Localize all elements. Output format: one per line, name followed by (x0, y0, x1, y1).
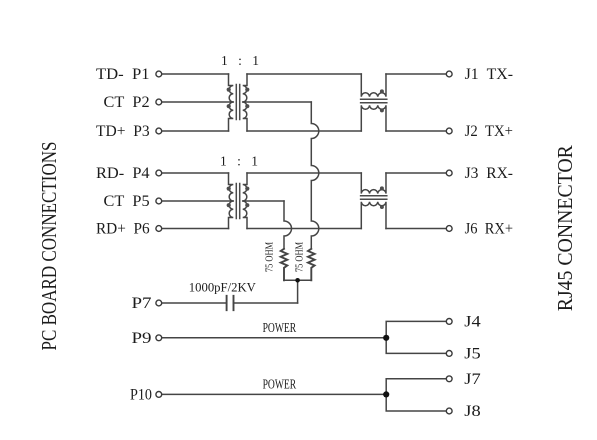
pin J3 (446, 170, 452, 176)
wire T1 secondary top to L1 (247, 73, 361, 75)
pin P4 (156, 170, 162, 176)
junction node P10 branch (383, 391, 389, 397)
capacitor C1 plates (227, 296, 234, 310)
wire node bus to capacitor line (297, 280, 299, 303)
pin P1 (156, 71, 162, 77)
wire resistor bottom bus (284, 279, 311, 281)
svg-text:PC BOARD CONNECTIONS: PC BOARD CONNECTIONS (37, 142, 61, 351)
wire capacitor C1 to riser (234, 302, 298, 304)
pin P9 (156, 335, 162, 341)
wire L1 to J1 (386, 73, 446, 75)
wire P10 power line (162, 393, 386, 395)
svg-text:POWER: POWER (263, 378, 297, 393)
pin J8 (446, 408, 452, 414)
svg-text:POWER: POWER (263, 321, 297, 336)
svg-text:1 : 1: 1 : 1 (220, 154, 258, 169)
polarity dots T1 (227, 88, 250, 109)
svg-text:J3 RX-: J3 RX- (465, 165, 513, 182)
transformer T2 primary winding (229, 173, 234, 229)
svg-text:J4: J4 (464, 313, 481, 330)
svg-text:1000pF/2KV: 1000pF/2KV (189, 279, 257, 294)
transformer T2 secondary winding (243, 173, 247, 229)
transformer T1 core (236, 85, 239, 120)
wire T2 secondary top to L2 (247, 172, 361, 174)
pin J1 (446, 71, 452, 77)
wire P5 to T2 primary center tap (162, 200, 234, 202)
pin P3 (156, 128, 162, 134)
transformer T1 secondary winding (243, 74, 247, 131)
wire P4 to T2 primary top (162, 172, 229, 174)
wire P2 to T1 primary center tap (162, 101, 234, 103)
pin J5 (446, 351, 452, 357)
svg-text:1 : 1: 1 : 1 (221, 53, 259, 68)
svg-text:J7: J7 (464, 371, 481, 388)
transformer T1 primary winding (229, 74, 234, 131)
pin P5 (156, 198, 162, 204)
wire L2 to J3 (386, 172, 446, 174)
junction node P9 branch (383, 335, 389, 341)
svg-text:J1 TX-: J1 TX- (465, 66, 513, 83)
svg-text:TD- P1: TD- P1 (96, 66, 150, 83)
transformer T2 core (236, 184, 239, 219)
wire L1 to J2 (386, 130, 446, 132)
wire T1 secondary bottom to L1 (247, 130, 361, 132)
svg-text:P10: P10 (130, 386, 152, 403)
pin J6 (446, 226, 452, 232)
polarity dots T2 (227, 187, 250, 208)
wire P7 to capacitor C1 (162, 302, 227, 304)
svg-text:J8: J8 (464, 403, 481, 420)
pin J2 (446, 128, 452, 134)
pin J7 (446, 376, 452, 382)
wire L2 to J6 (386, 228, 446, 230)
pin P6 (156, 226, 162, 232)
choke L2 bottom winding (361, 202, 386, 229)
wire T2 secondary center tap to R1 riser (243, 200, 284, 202)
svg-text:J5: J5 (464, 345, 481, 362)
wire P3 to T1 primary bottom (162, 130, 229, 132)
choke L1 top winding (361, 74, 386, 97)
wire P9 power line (162, 337, 386, 339)
choke L2 top winding (361, 173, 386, 194)
svg-text:RJ45 CONNECTOR: RJ45 CONNECTOR (553, 145, 577, 311)
svg-text:CT P2: CT P2 (104, 94, 150, 111)
wire T2 secondary bottom to L2 (247, 228, 361, 230)
svg-text:75 OHM: 75 OHM (264, 242, 275, 272)
svg-text:TD+ P3: TD+ P3 (96, 123, 150, 140)
svg-text:RD- P4: RD- P4 (96, 165, 150, 182)
wire P6 to T2 primary bottom (162, 228, 229, 230)
resistor R1 75 OHM (281, 249, 288, 280)
wire P1 to T1 primary top (162, 73, 229, 75)
resistor R2 75 OHM (308, 249, 315, 280)
polarity dots L1 (380, 89, 384, 112)
pin J4 (446, 319, 452, 325)
pin P2 (156, 99, 162, 105)
choke L1 core (361, 99, 387, 103)
pin terminals (156, 71, 452, 414)
choke L1 bottom winding (361, 105, 386, 131)
pin P10 (156, 392, 162, 398)
wire T1 secondary center tap to node R2 riser (243, 101, 312, 103)
pin P7 (156, 300, 162, 306)
choke L2 core (361, 196, 387, 200)
wire riser from T2 center tap to R1 with hop (284, 201, 292, 249)
wire J4 J5 branch (386, 321, 446, 353)
junction node resistor bus (295, 278, 300, 283)
svg-text:P9: P9 (132, 330, 152, 347)
svg-text:P7: P7 (132, 295, 152, 312)
svg-text:75 OHM: 75 OHM (295, 242, 306, 272)
svg-text:CT P5: CT P5 (104, 193, 150, 210)
polarity dots L2 (380, 186, 384, 209)
wire J7 J8 branch (386, 379, 446, 411)
svg-text:J2 TX+: J2 TX+ (465, 123, 513, 140)
svg-text:RD+ P6: RD+ P6 (96, 221, 150, 238)
wire riser from T1 center tap to R2 with hops (311, 102, 319, 249)
svg-text:J6 RX+: J6 RX+ (465, 221, 513, 238)
